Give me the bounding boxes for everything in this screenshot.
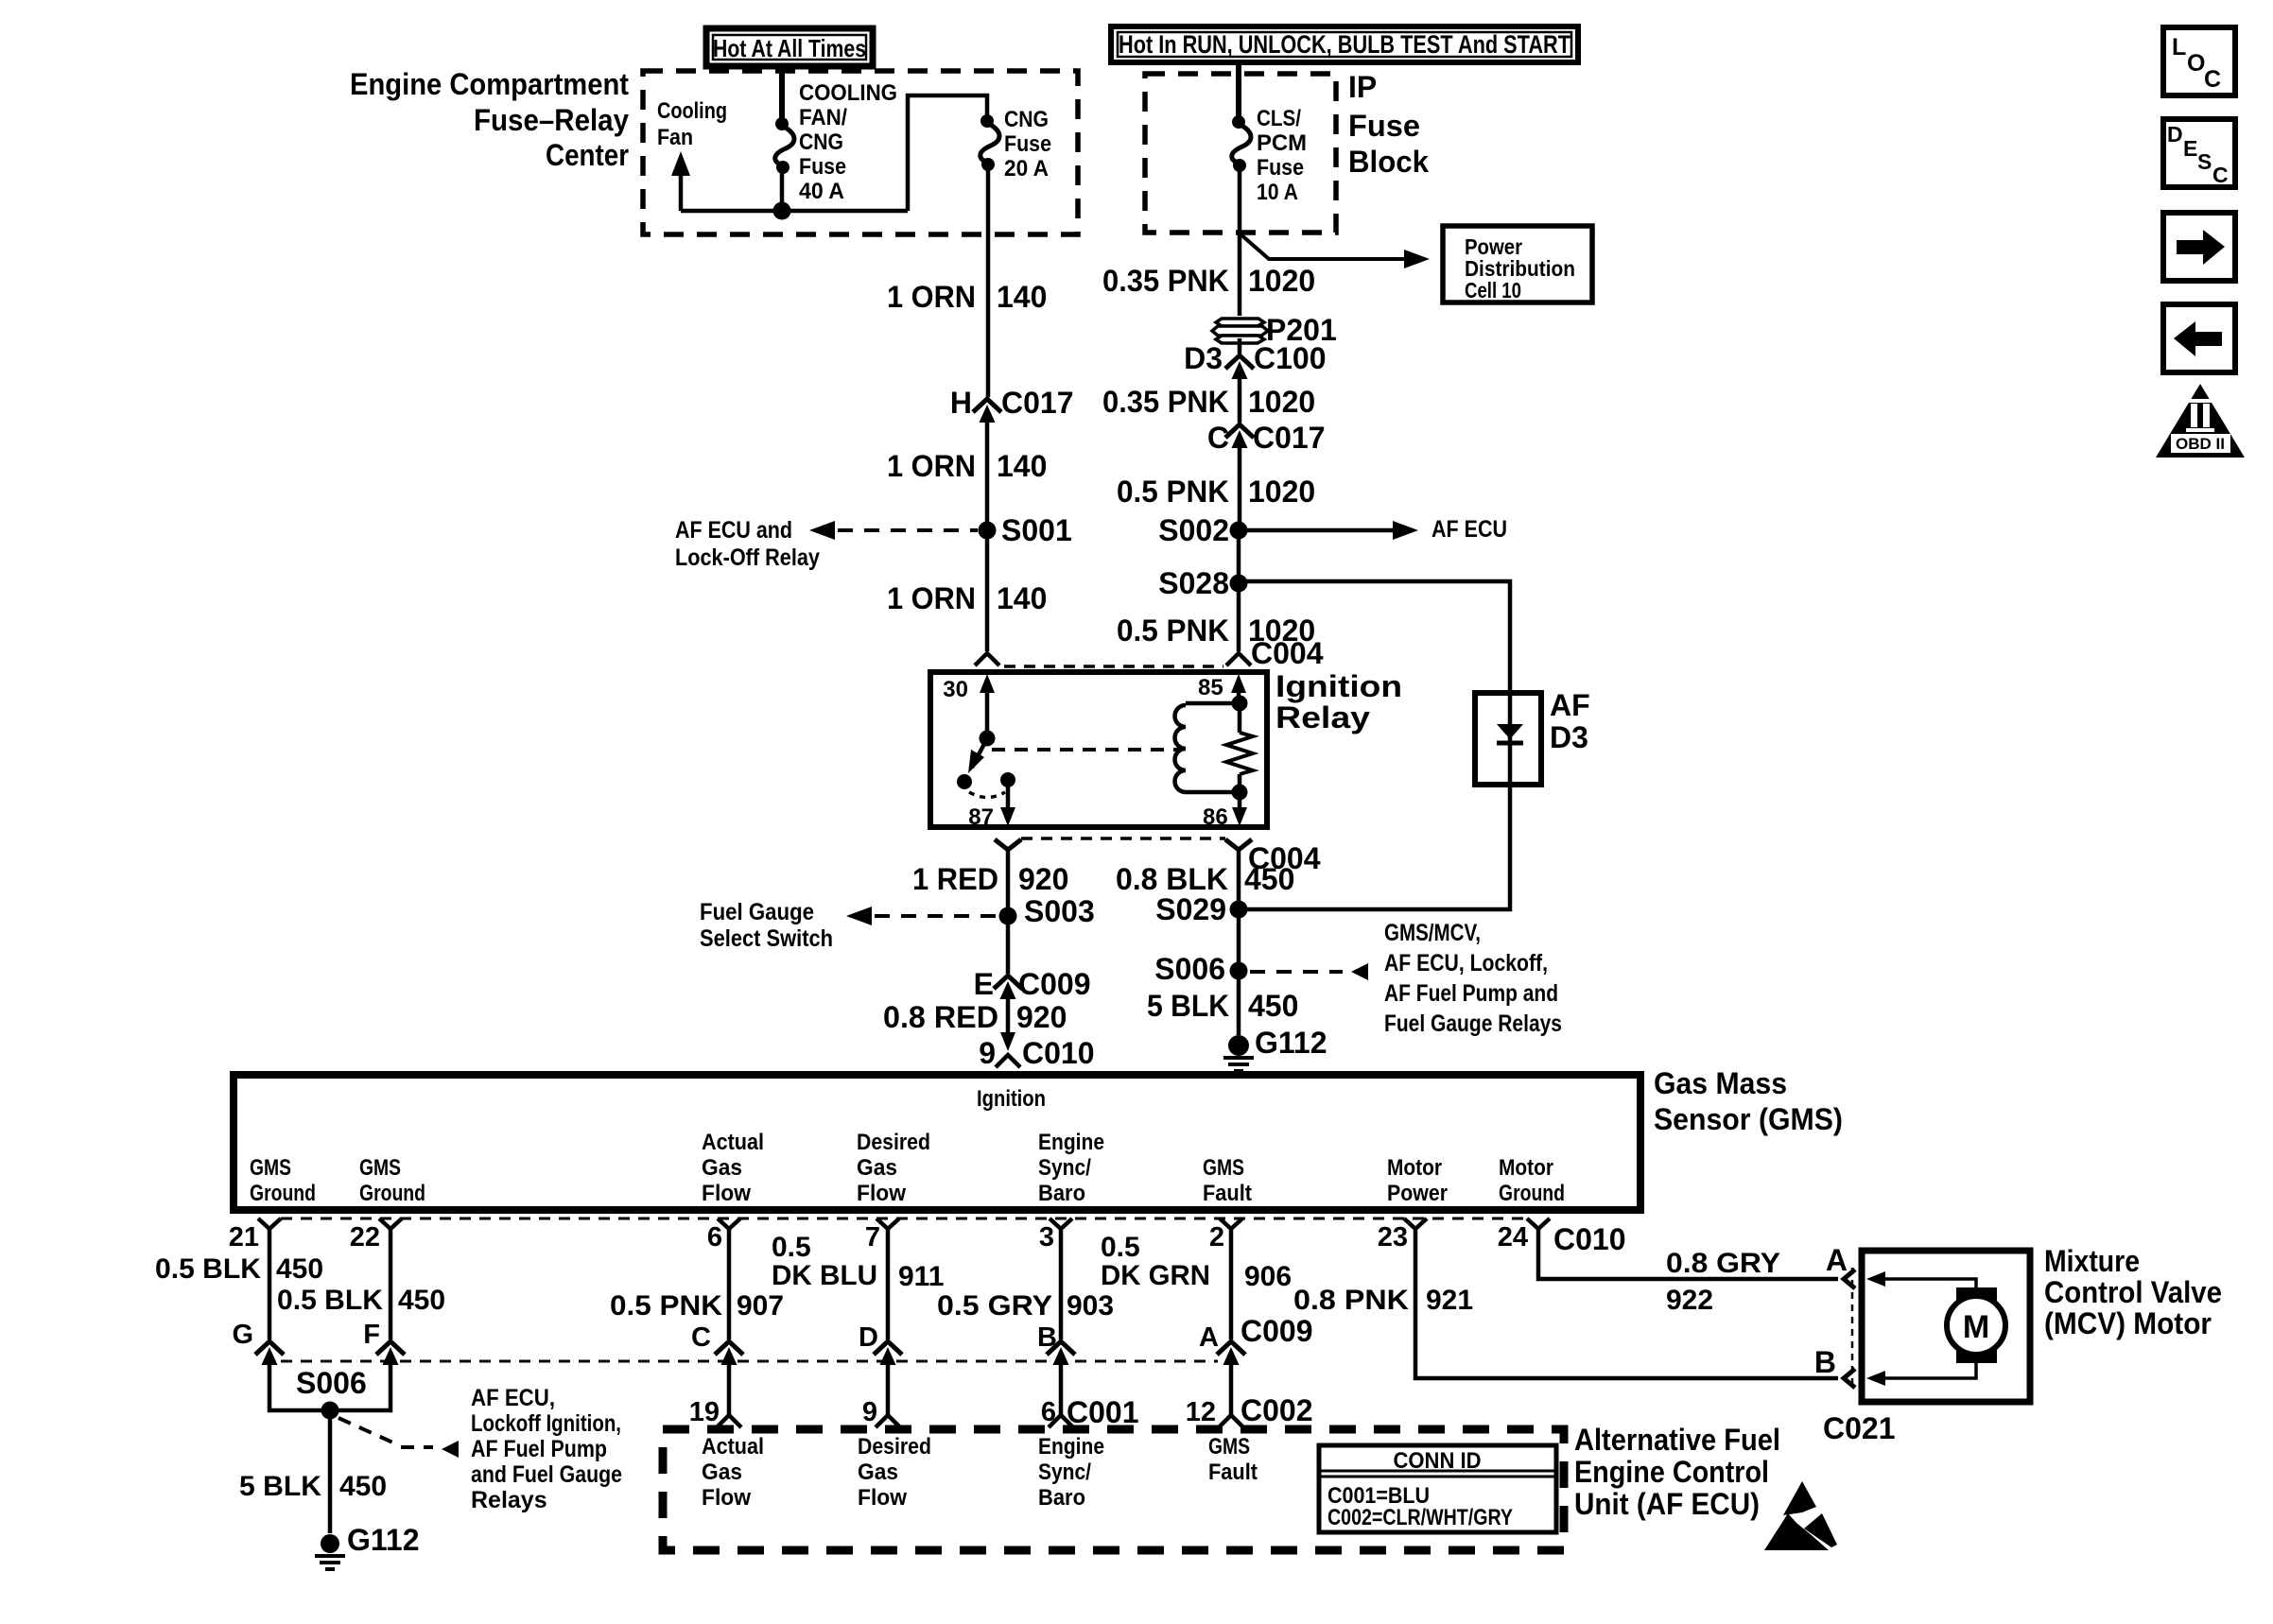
svg-text:12: 12 <box>1186 1397 1216 1427</box>
svg-text:Baro: Baro <box>1038 1485 1085 1511</box>
svg-text:921: 921 <box>1426 1285 1473 1316</box>
svg-text:Hot At All Times: Hot At All Times <box>713 34 866 62</box>
svg-text:B: B <box>1037 1322 1057 1353</box>
svg-text:Engine Compartment: Engine Compartment <box>350 67 629 101</box>
svg-text:Fuse: Fuse <box>799 154 846 180</box>
svg-text:Gas: Gas <box>702 1155 742 1181</box>
svg-text:Engine: Engine <box>1038 1130 1104 1155</box>
svg-text:Hot In RUN, UNLOCK, BULB TEST: Hot In RUN, UNLOCK, BULB TEST And START <box>1119 30 1570 59</box>
svg-text:922: 922 <box>1666 1285 1713 1316</box>
svg-text:and Fuel Gauge: and Fuel Gauge <box>471 1461 622 1488</box>
svg-text:Ground: Ground <box>359 1181 425 1206</box>
svg-text:86: 86 <box>1203 804 1228 830</box>
svg-text:40 A: 40 A <box>799 179 844 204</box>
svg-text:C001: C001 <box>1067 1395 1139 1429</box>
svg-text:920: 920 <box>1018 862 1068 896</box>
svg-text:C009: C009 <box>1018 967 1091 1001</box>
svg-text:30: 30 <box>943 677 968 702</box>
svg-text:Engine Control: Engine Control <box>1574 1455 1769 1489</box>
svg-text:C021: C021 <box>1823 1411 1896 1445</box>
svg-text:Lockoff Ignition,: Lockoff Ignition, <box>471 1410 621 1437</box>
svg-text:S006: S006 <box>296 1366 367 1400</box>
svg-text:140: 140 <box>997 449 1047 483</box>
svg-text:OBD II: OBD II <box>2176 435 2225 453</box>
svg-text:Relay: Relay <box>1275 700 1370 734</box>
svg-text:Flow: Flow <box>702 1485 751 1511</box>
svg-text:GMS: GMS <box>359 1155 401 1181</box>
svg-text:0.5 PNK: 0.5 PNK <box>610 1290 722 1322</box>
svg-text:1020: 1020 <box>1248 264 1315 298</box>
svg-text:0.5 BLK: 0.5 BLK <box>277 1285 383 1316</box>
svg-text:DK GRN: DK GRN <box>1101 1260 1210 1291</box>
svg-text:Motor: Motor <box>1499 1155 1553 1181</box>
svg-text:Gas: Gas <box>857 1155 897 1181</box>
svg-text:FAN/: FAN/ <box>799 105 847 130</box>
svg-text:D: D <box>2167 122 2183 147</box>
svg-text:450: 450 <box>1244 862 1294 896</box>
svg-text:C: C <box>1207 421 1229 455</box>
svg-text:S001: S001 <box>1001 513 1072 547</box>
svg-text:920: 920 <box>1016 1000 1067 1034</box>
svg-text:20 A: 20 A <box>1004 156 1049 181</box>
svg-text:Fuse: Fuse <box>1348 109 1420 143</box>
svg-text:COOLING: COOLING <box>799 80 897 106</box>
svg-text:911: 911 <box>898 1261 944 1292</box>
svg-text:450: 450 <box>276 1253 323 1285</box>
svg-text:87: 87 <box>968 804 994 830</box>
svg-text:Actual: Actual <box>702 1434 764 1460</box>
svg-text:C010: C010 <box>1553 1222 1626 1256</box>
svg-text:6: 6 <box>707 1222 722 1253</box>
svg-text:H: H <box>950 386 972 420</box>
svg-text:S003: S003 <box>1024 894 1095 928</box>
svg-text:B: B <box>1814 1345 1836 1379</box>
svg-text:Fuse–Relay: Fuse–Relay <box>474 103 629 137</box>
svg-text:Motor: Motor <box>1387 1155 1442 1181</box>
svg-text:Gas Mass: Gas Mass <box>1654 1066 1787 1100</box>
svg-text:450: 450 <box>1248 989 1298 1023</box>
svg-text:GMS: GMS <box>1208 1434 1250 1460</box>
svg-text:C017: C017 <box>1253 421 1326 455</box>
svg-text:AF Fuel Pump and: AF Fuel Pump and <box>1384 980 1558 1007</box>
svg-text:Select Switch: Select Switch <box>700 925 833 952</box>
svg-text:Actual: Actual <box>702 1130 764 1155</box>
svg-text:22: 22 <box>350 1222 380 1253</box>
svg-text:2: 2 <box>1209 1222 1224 1253</box>
svg-text:Block: Block <box>1348 145 1429 179</box>
svg-text:GMS: GMS <box>250 1155 291 1181</box>
svg-text:AF ECU, Lockoff,: AF ECU, Lockoff, <box>1384 950 1548 976</box>
svg-text:140: 140 <box>997 581 1047 615</box>
svg-text:A: A <box>1826 1243 1848 1277</box>
svg-text:Ignition: Ignition <box>1275 669 1402 703</box>
svg-text:1 RED: 1 RED <box>912 862 998 896</box>
svg-text:C009: C009 <box>1241 1314 1313 1348</box>
svg-text:CNG: CNG <box>1004 107 1049 132</box>
svg-text:19: 19 <box>689 1397 720 1427</box>
svg-text:906: 906 <box>1244 1261 1292 1292</box>
svg-text:Lock-Off Relay: Lock-Off Relay <box>675 544 820 571</box>
svg-text:Sensor (GMS): Sensor (GMS) <box>1654 1102 1843 1136</box>
svg-text:Alternative Fuel: Alternative Fuel <box>1574 1423 1780 1457</box>
svg-text:Ground: Ground <box>250 1181 316 1206</box>
svg-text:0.5 PNK: 0.5 PNK <box>1117 475 1229 509</box>
svg-text:Cooling: Cooling <box>657 98 727 124</box>
svg-text:1 ORN: 1 ORN <box>887 280 976 314</box>
svg-text:3: 3 <box>1039 1222 1054 1253</box>
svg-text:C: C <box>691 1322 711 1353</box>
svg-text:450: 450 <box>398 1285 445 1316</box>
svg-text:C010: C010 <box>1022 1036 1095 1070</box>
svg-text:Gas: Gas <box>702 1460 742 1485</box>
svg-text:10 A: 10 A <box>1257 180 1298 205</box>
svg-text:CNG: CNG <box>799 130 843 155</box>
svg-text:AF: AF <box>1550 688 1590 722</box>
svg-text:Ignition: Ignition <box>977 1086 1046 1112</box>
svg-text:0.5: 0.5 <box>772 1232 811 1263</box>
svg-text:Sync/: Sync/ <box>1038 1460 1091 1485</box>
svg-text:0.35 PNK: 0.35 PNK <box>1102 264 1229 298</box>
svg-text:Flow: Flow <box>702 1181 751 1206</box>
svg-text:140: 140 <box>997 280 1047 314</box>
svg-text:DK BLU: DK BLU <box>772 1260 877 1291</box>
svg-text:M: M <box>1963 1309 1989 1345</box>
svg-text:0.8 PNK: 0.8 PNK <box>1293 1285 1409 1316</box>
svg-text:S006: S006 <box>1154 952 1225 986</box>
svg-text:S029: S029 <box>1155 892 1226 926</box>
svg-text:L: L <box>2172 34 2186 60</box>
svg-text:S002: S002 <box>1158 513 1229 547</box>
svg-text:23: 23 <box>1378 1222 1408 1253</box>
svg-text:9: 9 <box>862 1397 877 1427</box>
svg-text:C002=CLR/WHT/GRY: C002=CLR/WHT/GRY <box>1327 1505 1513 1530</box>
svg-text:IP: IP <box>1348 70 1377 104</box>
svg-text:Sync/: Sync/ <box>1038 1155 1091 1181</box>
svg-text:Flow: Flow <box>857 1181 906 1206</box>
svg-text:0.5 BLK: 0.5 BLK <box>155 1253 261 1285</box>
svg-text:Desired: Desired <box>857 1130 930 1155</box>
svg-text:(MCV) Motor: (MCV) Motor <box>2044 1306 2212 1340</box>
svg-text:C002: C002 <box>1241 1393 1313 1427</box>
svg-text:D3: D3 <box>1550 720 1588 754</box>
svg-text:Fuel Gauge Relays: Fuel Gauge Relays <box>1384 1011 1562 1037</box>
svg-text:1020: 1020 <box>1248 385 1315 419</box>
svg-text:9: 9 <box>979 1036 996 1070</box>
svg-text:S028: S028 <box>1158 566 1229 600</box>
svg-text:D: D <box>859 1322 878 1353</box>
svg-text:C004: C004 <box>1251 636 1324 670</box>
svg-text:Baro: Baro <box>1038 1181 1085 1206</box>
svg-text:0.5: 0.5 <box>1101 1232 1140 1263</box>
svg-text:450: 450 <box>339 1471 387 1502</box>
svg-text:Fuel Gauge: Fuel Gauge <box>700 899 814 925</box>
svg-text:C: C <box>2212 163 2229 187</box>
svg-text:G112: G112 <box>1255 1026 1327 1060</box>
svg-text:Cell 10: Cell 10 <box>1465 278 1521 302</box>
svg-text:C: C <box>2204 66 2221 93</box>
svg-text:Fault: Fault <box>1203 1181 1252 1206</box>
svg-text:Relays: Relays <box>471 1487 547 1513</box>
svg-text:Fault: Fault <box>1208 1460 1258 1485</box>
svg-text:Fuse: Fuse <box>1004 131 1051 157</box>
svg-text:O: O <box>2187 50 2205 77</box>
svg-text:S: S <box>2197 149 2212 174</box>
svg-text:0.8 RED: 0.8 RED <box>883 1000 998 1034</box>
svg-text:AF Fuel Pump: AF Fuel Pump <box>471 1436 607 1462</box>
svg-text:6: 6 <box>1041 1397 1056 1427</box>
svg-text:1020: 1020 <box>1248 475 1315 509</box>
svg-text:E: E <box>2183 136 2197 161</box>
svg-text:Desired: Desired <box>858 1434 931 1460</box>
svg-text:A: A <box>1199 1322 1219 1353</box>
svg-text:Center: Center <box>546 138 629 172</box>
svg-text:Unit (AF ECU): Unit (AF ECU) <box>1574 1487 1760 1521</box>
svg-text:E: E <box>974 967 994 1001</box>
svg-text:5 BLK: 5 BLK <box>1147 989 1229 1023</box>
svg-text:24: 24 <box>1498 1222 1528 1253</box>
svg-text:Power: Power <box>1387 1181 1448 1206</box>
svg-text:GMS/MCV,: GMS/MCV, <box>1384 920 1481 946</box>
svg-text:Control Valve: Control Valve <box>2044 1275 2222 1309</box>
svg-text:Mixture: Mixture <box>2044 1244 2140 1278</box>
svg-text:907: 907 <box>737 1290 784 1322</box>
svg-text:Fuse: Fuse <box>1257 155 1304 181</box>
svg-text:21: 21 <box>229 1222 259 1253</box>
svg-text:1 ORN: 1 ORN <box>887 581 976 615</box>
svg-text:PCM: PCM <box>1257 130 1307 156</box>
svg-text:903: 903 <box>1067 1290 1114 1322</box>
svg-text:0.35 PNK: 0.35 PNK <box>1102 385 1229 419</box>
svg-text:5 BLK: 5 BLK <box>239 1471 321 1502</box>
svg-text:AF ECU and: AF ECU and <box>675 517 792 544</box>
svg-text:1 ORN: 1 ORN <box>887 449 976 483</box>
svg-text:CLS/: CLS/ <box>1257 106 1301 131</box>
svg-text:0.5 PNK: 0.5 PNK <box>1117 613 1229 648</box>
svg-text:G112: G112 <box>347 1523 420 1557</box>
svg-text:C017: C017 <box>1001 386 1074 420</box>
svg-text:7: 7 <box>865 1222 880 1253</box>
svg-text:0.8 BLK: 0.8 BLK <box>1116 862 1228 896</box>
svg-text:0.8 GRY: 0.8 GRY <box>1666 1248 1780 1279</box>
svg-text:GMS: GMS <box>1203 1155 1244 1181</box>
svg-text:CONN ID: CONN ID <box>1394 1448 1482 1474</box>
svg-text:AF ECU,: AF ECU, <box>471 1385 555 1411</box>
svg-text:F: F <box>363 1320 380 1350</box>
svg-text:0.5 GRY: 0.5 GRY <box>937 1290 1052 1322</box>
svg-text:D3: D3 <box>1184 341 1223 375</box>
svg-text:Flow: Flow <box>858 1485 907 1511</box>
svg-text:Ground: Ground <box>1499 1181 1565 1206</box>
svg-text:85: 85 <box>1198 675 1223 700</box>
svg-text:Engine: Engine <box>1038 1434 1104 1460</box>
svg-text:G: G <box>232 1320 253 1350</box>
svg-text:Gas: Gas <box>858 1460 898 1485</box>
svg-text:Fan: Fan <box>657 125 693 150</box>
svg-text:AF ECU: AF ECU <box>1431 516 1507 543</box>
svg-text:C100: C100 <box>1254 341 1327 375</box>
